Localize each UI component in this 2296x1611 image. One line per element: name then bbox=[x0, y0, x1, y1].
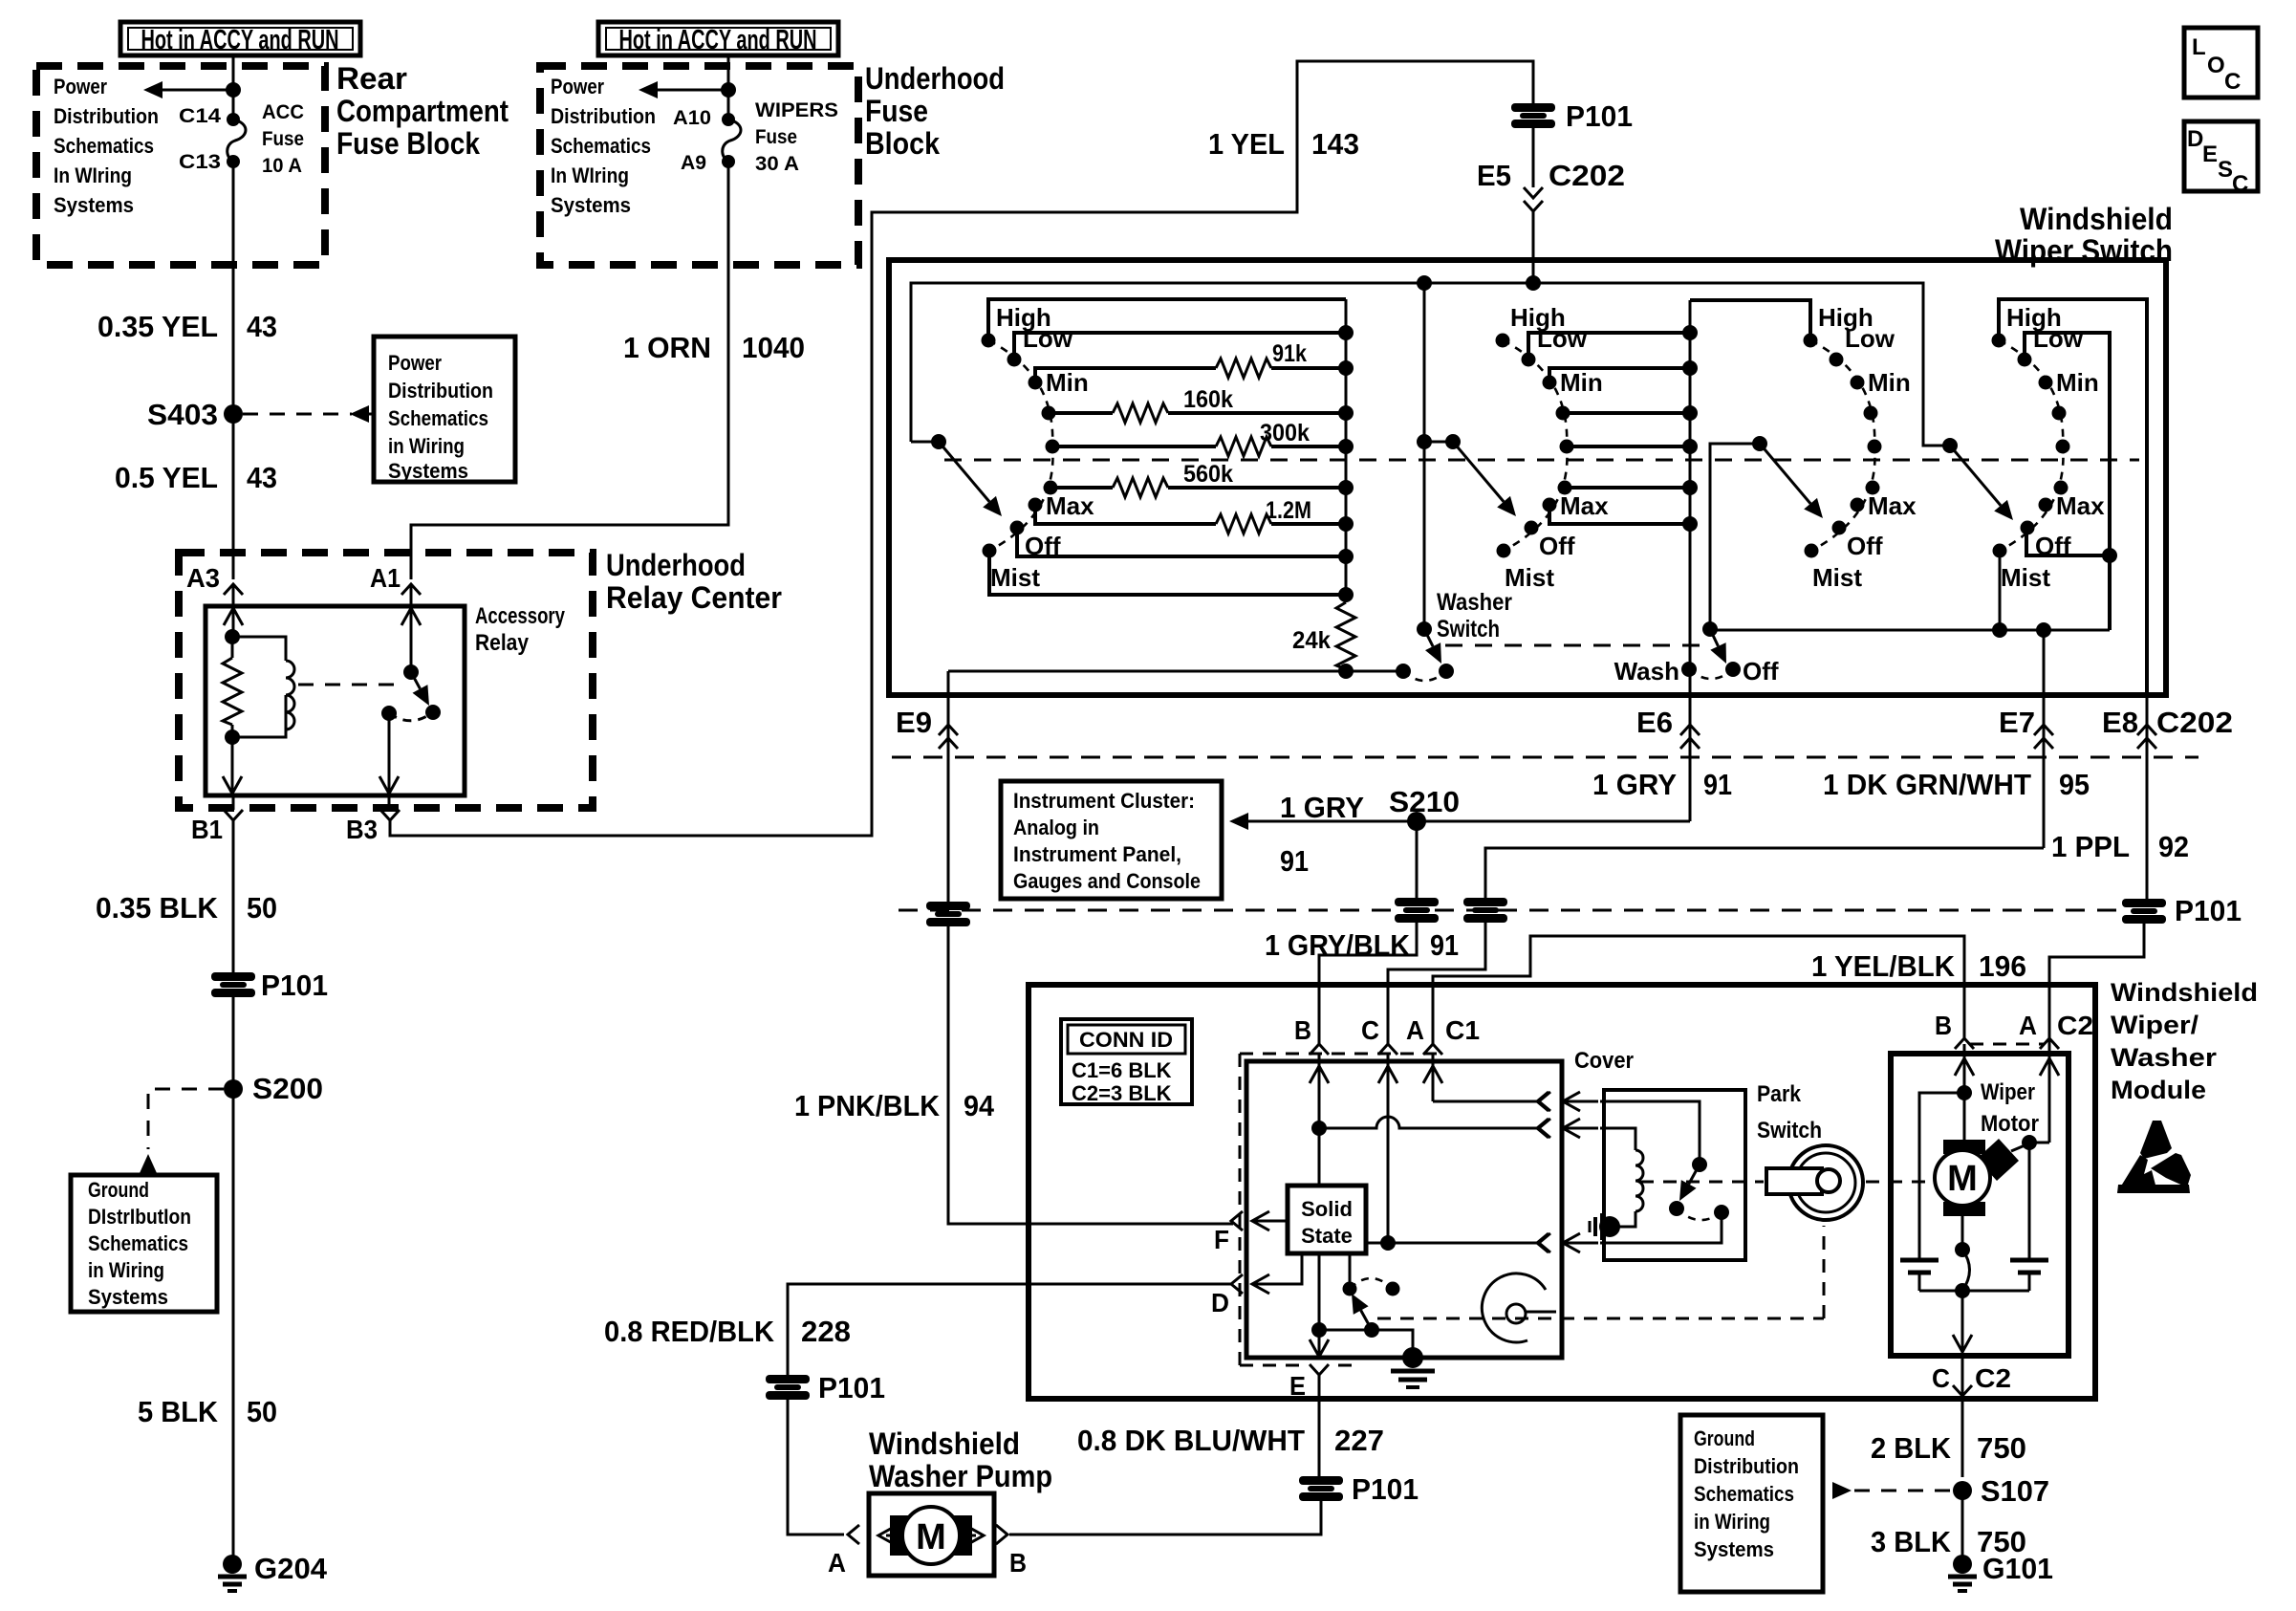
svg-text:0.35 YEL: 0.35 YEL bbox=[97, 310, 218, 343]
svg-text:Module: Module bbox=[2111, 1076, 2206, 1104]
svg-text:B: B bbox=[1009, 1548, 1027, 1578]
svg-text:Instrument Cluster:: Instrument Cluster: bbox=[1013, 789, 1195, 813]
svg-text:10 A: 10 A bbox=[262, 155, 302, 177]
svg-text:1 PPL: 1 PPL bbox=[2051, 830, 2130, 863]
svg-text:S200: S200 bbox=[252, 1072, 323, 1105]
svg-text:E9: E9 bbox=[896, 706, 932, 739]
suppression capacitor (left) bbox=[1900, 1260, 1939, 1291]
svg-text:Low: Low bbox=[2033, 324, 2084, 353]
svg-text:A: A bbox=[828, 1548, 846, 1578]
svg-text:1 ORN: 1 ORN bbox=[623, 331, 711, 364]
park switch arm bbox=[1669, 1157, 1729, 1220]
switch 1 output bus bbox=[1345, 299, 1348, 602]
wire: 1 ORN 1040 from fuse A9 down to relay A1 bbox=[411, 162, 728, 579]
wire: pin A C2 into motor to high brush bbox=[2022, 1038, 2059, 1150]
label: Windshield Washer Pump bbox=[869, 1426, 1052, 1493]
svg-text:S107: S107 bbox=[1981, 1474, 2049, 1508]
svg-text:C: C bbox=[2224, 69, 2241, 95]
svg-text:91: 91 bbox=[1280, 844, 1309, 878]
dashed gang line (washer switch) bbox=[1445, 644, 1708, 647]
label: Park Switch bbox=[1757, 1081, 1822, 1143]
connector P101 grommet on E5 feed bbox=[1511, 99, 1633, 133]
svg-text:Min: Min bbox=[1560, 368, 1603, 397]
wire: E9/P101 to module pin F (1 PNK/BLK 94) bbox=[948, 926, 1233, 1224]
box: park switch bbox=[1604, 1090, 1745, 1260]
relay actuation dashed link bbox=[298, 684, 405, 686]
wire: 24k bottom to washer switch / E9 bbox=[948, 664, 1403, 695]
leader: S403 to power distribution reference box bbox=[243, 405, 374, 423]
dashed box: Underhood Fuse Block power distribution bbox=[540, 66, 858, 265]
svg-text:Mist: Mist bbox=[1812, 563, 1862, 592]
washer pump cam inside cover bbox=[1482, 1274, 1556, 1342]
connector face dashed (cover left/bottom) bbox=[1240, 1054, 1357, 1365]
connector C2 pin C bbox=[1932, 1363, 2011, 1396]
switch 4 rung: Off bbox=[2026, 528, 2117, 563]
wire: relay common to B3 bbox=[379, 713, 399, 794]
svg-text:91: 91 bbox=[1430, 928, 1459, 962]
module pin F bbox=[1214, 1211, 1243, 1254]
wire: from Hot box down through fuse block bbox=[232, 55, 235, 120]
wire: P101 to S200 bbox=[232, 997, 235, 1089]
svg-text:5 BLK: 5 BLK bbox=[138, 1395, 219, 1428]
svg-text:Max: Max bbox=[1046, 491, 1094, 520]
switch 2 rung 6 bbox=[1565, 480, 1698, 495]
wire: power distribution arrow (second) bbox=[639, 81, 736, 98]
wire: E8 to module pin A C2 bbox=[2049, 923, 2144, 1038]
label: Underhood Fuse Block bbox=[865, 61, 1005, 161]
svg-text:Systems: Systems bbox=[551, 193, 631, 217]
box: Windshield Wiper Switch bbox=[889, 260, 2166, 695]
svg-text:228: 228 bbox=[801, 1315, 851, 1348]
park switch coil bbox=[1600, 1128, 1643, 1227]
svg-text:S210: S210 bbox=[1389, 785, 1460, 818]
svg-text:E5: E5 bbox=[1477, 159, 1511, 192]
relay coil branch wire A3 bbox=[224, 606, 243, 644]
svg-text:C13: C13 bbox=[179, 151, 221, 173]
switch 1 rung: Max with resistor 1.2M bbox=[1035, 505, 1354, 533]
node S403 splice bbox=[147, 398, 243, 431]
svg-text:0.5 YEL: 0.5 YEL bbox=[115, 461, 218, 494]
wire: P101 to C202 E5 bbox=[1532, 128, 1535, 187]
label: 0.35 BLK | 50 bbox=[96, 891, 277, 925]
svg-text:G204: G204 bbox=[254, 1552, 328, 1585]
rotary switch 4 contacts bbox=[1992, 303, 2106, 592]
svg-text:92: 92 bbox=[2158, 830, 2189, 863]
svg-text:D: D bbox=[1211, 1288, 1229, 1317]
svg-text:Washer: Washer bbox=[1437, 589, 1512, 616]
svg-text:Underhood: Underhood bbox=[865, 61, 1005, 96]
svg-text:Compartment: Compartment bbox=[336, 94, 509, 128]
label: 2 BLK | 750 bbox=[1871, 1431, 2026, 1465]
svg-text:Max: Max bbox=[1868, 491, 1917, 520]
wire: P101 to pump pin A bbox=[788, 1400, 844, 1535]
svg-text:M: M bbox=[916, 1517, 946, 1557]
svg-text:Mist: Mist bbox=[2001, 563, 2050, 592]
wire: A branch to right capacitor bbox=[2028, 1143, 2031, 1258]
svg-text:1 YEL: 1 YEL bbox=[1208, 127, 1285, 161]
washer switch feed bbox=[1417, 283, 1432, 629]
wash/off switch arm bbox=[1702, 444, 2000, 664]
svg-text:Wiper Switch: Wiper Switch bbox=[1995, 233, 2173, 268]
svg-text:Park: Park bbox=[1757, 1081, 1802, 1107]
svg-text:196: 196 bbox=[1979, 949, 2026, 983]
label: 1 GRY/BLK | 91 bbox=[1265, 928, 1459, 962]
svg-text:Relay: Relay bbox=[475, 630, 530, 656]
svg-text:State: State bbox=[1301, 1224, 1353, 1248]
wire: module pin D to washer pump A (0.8 RED/BLK 228) bbox=[788, 1284, 1233, 1375]
cover pin (to park contact) bbox=[1537, 1233, 1549, 1252]
svg-text:Systems: Systems bbox=[54, 193, 134, 217]
mechanical dashed link: motor shaft bbox=[1640, 1181, 1935, 1184]
wire: 0.5 YEL 43 from S403 to relay A3 bbox=[232, 422, 235, 579]
svg-text:0.35 BLK: 0.35 BLK bbox=[96, 891, 219, 925]
svg-text:50: 50 bbox=[247, 1395, 277, 1428]
wire + arrow: module pin F into solid state bbox=[1252, 1211, 1288, 1230]
svg-text:Schematics: Schematics bbox=[551, 134, 651, 158]
ESD static sensitive symbol bbox=[2117, 1121, 2191, 1193]
svg-text:Max: Max bbox=[2056, 491, 2105, 520]
switch 1 rung: Low bbox=[1014, 325, 1354, 359]
svg-text:B3: B3 bbox=[346, 815, 378, 844]
rotary switch 1 (delay resistor bank) contacts bbox=[982, 303, 1095, 592]
svg-text:Schematics: Schematics bbox=[388, 406, 488, 430]
svg-text:Washer Pump: Washer Pump bbox=[869, 1459, 1052, 1493]
switch 1 rung with resistor 560k bbox=[1051, 478, 1354, 497]
box: cover (module electronics) bbox=[1246, 1061, 1562, 1358]
wire: pump B to module pin E (0.8 DK BLU/WHT 227) bbox=[1009, 1501, 1321, 1535]
svg-text:43: 43 bbox=[247, 310, 277, 343]
mechanical dashed link: cams bbox=[1377, 1226, 1824, 1318]
svg-text:F: F bbox=[1214, 1225, 1229, 1254]
svg-text:Systems: Systems bbox=[1694, 1537, 1774, 1561]
label: 0.8 RED/BLK | 228 bbox=[604, 1315, 851, 1348]
svg-text:0.8 RED/BLK: 0.8 RED/BLK bbox=[604, 1315, 775, 1348]
svg-text:Low: Low bbox=[1845, 324, 1895, 353]
box: Hot in ACCY and RUN (underhood fuse block) bbox=[598, 22, 838, 55]
wire: B3 output to windshield wiper switch feed bbox=[390, 61, 1533, 836]
node S210 splice bbox=[1389, 785, 1460, 831]
pin B3 bbox=[346, 795, 400, 844]
wire: 1 YEL/BLK 196 jumper pin A C1 to pin B C2 bbox=[1433, 936, 1964, 1044]
box: Solid State bbox=[1288, 1186, 1366, 1253]
connector C2 dashed face bbox=[1970, 1043, 2044, 1046]
svg-text:D: D bbox=[2187, 126, 2203, 152]
label: 1 GRY / 91 (arrow) bbox=[1280, 791, 1364, 878]
node S200 splice bbox=[224, 1072, 323, 1105]
svg-text:E: E bbox=[1289, 1371, 1306, 1401]
wash/off switch contacts: Wash on E6 bus, Off stub bbox=[1681, 662, 1741, 679]
leader: ground distribution reference to S107 bbox=[1832, 1482, 1953, 1499]
switch 3 High rung to E6 bus bbox=[1690, 300, 1810, 340]
wiper motor M bbox=[1935, 1139, 2029, 1216]
wire: B branch to left capacitor bbox=[1919, 1093, 1964, 1258]
pin B1 bbox=[191, 795, 243, 844]
svg-text:E6: E6 bbox=[1636, 706, 1673, 739]
svg-text:Off: Off bbox=[1539, 532, 1575, 560]
label: 1 DK GRN/WHT | 95 (E7) bbox=[1823, 768, 2090, 801]
svg-text:P101: P101 bbox=[2175, 894, 2242, 927]
svg-text:Schematics: Schematics bbox=[88, 1231, 188, 1255]
connector C1 pin A bbox=[1406, 1015, 1442, 1055]
pin A1 bbox=[370, 563, 421, 606]
switch 1 wiper arm bbox=[931, 434, 1002, 516]
cover pin (to park coil) bbox=[1537, 1119, 1549, 1138]
label: 1 PPL | 92 (E8) bbox=[2051, 830, 2189, 863]
connector C202 pin E5 bbox=[1477, 159, 1625, 283]
svg-text:L: L bbox=[2192, 34, 2206, 60]
svg-text:Fuse: Fuse bbox=[865, 94, 928, 128]
park coil case ground bbox=[1590, 1213, 1620, 1240]
svg-text:Distribution: Distribution bbox=[1694, 1454, 1799, 1478]
fuse: WIPERS Fuse 30 A, pins A10/A9 bbox=[722, 113, 741, 168]
svg-text:Power: Power bbox=[54, 75, 107, 98]
connector C1 dashed face bbox=[1240, 1053, 1445, 1056]
switch 4 bottom bus to E7 bbox=[1992, 622, 2110, 695]
svg-text:227: 227 bbox=[1334, 1424, 1384, 1457]
svg-text:A3: A3 bbox=[186, 563, 220, 593]
svg-text:Solid: Solid bbox=[1301, 1197, 1353, 1221]
wire: S210 down to P101 bbox=[1416, 821, 1419, 899]
svg-text:O: O bbox=[2207, 53, 2225, 78]
label: Wiper Motor bbox=[1981, 1079, 2039, 1137]
svg-text:Motor: Motor bbox=[1981, 1111, 2039, 1137]
label: Power Distribution Schematics In Wiring Systems (second) bbox=[551, 75, 656, 217]
label: 0.5 YEL | 43 bbox=[115, 461, 277, 494]
box: wiper motor bbox=[1891, 1054, 2069, 1356]
switch 1 rung: Off bbox=[1017, 528, 1354, 564]
label: Windshield Wiper Switch bbox=[1995, 202, 2173, 268]
box: Windshield Wiper/Washer Module bbox=[1029, 985, 2095, 1399]
label: Underhood Relay Center bbox=[606, 548, 782, 615]
label: Windshield Wiper/Washer Module bbox=[2111, 978, 2258, 1104]
wire: pin C into cover down to solid state bbox=[1378, 1054, 1397, 1251]
box: Hot in ACCY and RUN (rear fuse block) bbox=[120, 22, 360, 55]
svg-text:DIstrIbutIon: DIstrIbutIon bbox=[88, 1205, 191, 1229]
svg-text:Switch: Switch bbox=[1757, 1118, 1822, 1143]
svg-text:E: E bbox=[2202, 142, 2218, 167]
svg-text:Distribution: Distribution bbox=[54, 104, 159, 128]
svg-text:24k: 24k bbox=[1292, 627, 1331, 654]
label: 1 YEL/BLK | 196 bbox=[1811, 949, 2026, 983]
switch 1 rung with resistor 300k bbox=[1052, 437, 1354, 456]
svg-text:ACC: ACC bbox=[262, 101, 304, 123]
svg-text:P101: P101 bbox=[1566, 99, 1633, 133]
wire: relay coil to B1 bbox=[223, 737, 242, 794]
ground G101 bbox=[1948, 1552, 2053, 1591]
svg-text:in Wiring: in Wiring bbox=[1694, 1510, 1770, 1534]
label: 1 GRY | 91 (E6) bbox=[1592, 768, 1732, 801]
wire: 5 BLK 50 from S200 to G204 bbox=[232, 1089, 235, 1556]
svg-text:CONN ID: CONN ID bbox=[1079, 1028, 1173, 1052]
svg-text:S403: S403 bbox=[147, 398, 218, 431]
svg-text:In WIring: In WIring bbox=[551, 163, 629, 187]
svg-text:Cover: Cover bbox=[1574, 1048, 1634, 1074]
svg-text:Wash: Wash bbox=[1614, 657, 1679, 686]
connector P101 grommet (pump return) bbox=[1299, 1472, 1419, 1506]
wire: cover to park pivot bbox=[1600, 1101, 1700, 1165]
svg-text:Rear: Rear bbox=[336, 61, 407, 96]
relay switch: A1 feed and movable arm bbox=[401, 606, 429, 706]
box: Power Distribution Schematics in Wiring Systems (reference) bbox=[374, 337, 515, 483]
switch 4 rung: High to E8 bbox=[1999, 299, 2147, 695]
svg-text:Power: Power bbox=[388, 351, 442, 375]
svg-text:143: 143 bbox=[1311, 127, 1359, 161]
wire: pin A into cover to park switch pivot bbox=[1423, 1054, 1550, 1111]
svg-text:C14: C14 bbox=[179, 105, 221, 127]
switch 2 rung: Min bbox=[1549, 360, 1698, 382]
svg-text:In WIring: In WIring bbox=[54, 163, 132, 187]
svg-text:P101: P101 bbox=[1352, 1472, 1419, 1506]
wire: 0.35 YEL 43 from fuse C13 to S403 bbox=[232, 162, 235, 406]
svg-text:1 GRY: 1 GRY bbox=[1592, 768, 1677, 801]
svg-text:Max: Max bbox=[1560, 491, 1609, 520]
svg-text:Low: Low bbox=[1537, 324, 1588, 353]
wire: E6 to S210 and instrument cluster arrow bbox=[1229, 813, 1690, 830]
svg-text:C: C bbox=[2232, 171, 2248, 197]
switch 2 rung 4 bbox=[1563, 405, 1698, 421]
svg-text:Analog in: Analog in bbox=[1013, 816, 1099, 839]
svg-text:Instrument Panel,: Instrument Panel, bbox=[1013, 842, 1181, 866]
svg-text:560k: 560k bbox=[1183, 461, 1233, 488]
svg-text:1 DK GRN/WHT: 1 DK GRN/WHT bbox=[1823, 768, 2031, 801]
svg-text:Mist: Mist bbox=[990, 563, 1040, 592]
cover pin (to park pivot) bbox=[1537, 1092, 1549, 1111]
switch 4 rung: Mist bbox=[1999, 547, 2002, 630]
connector C202 pin E8 bbox=[2102, 695, 2233, 900]
connector P101 grommet on E9 wire bbox=[926, 902, 970, 926]
switch 2 output bus (E6) bbox=[1689, 300, 1692, 695]
svg-text:G101: G101 bbox=[1982, 1552, 2053, 1585]
svg-text:Ground: Ground bbox=[88, 1178, 149, 1202]
svg-text:2 BLK: 2 BLK bbox=[1871, 1431, 1952, 1465]
svg-text:Underhood: Underhood bbox=[606, 548, 746, 582]
svg-text:Power: Power bbox=[551, 75, 604, 98]
svg-text:E7: E7 bbox=[1999, 706, 2035, 739]
relay switch contacts bbox=[381, 705, 441, 721]
rotary switch 2 contacts bbox=[1496, 303, 1610, 592]
connector C2 pin B bbox=[1935, 1011, 1974, 1049]
svg-text:in Wiring: in Wiring bbox=[388, 434, 465, 458]
wire: washer relay common to internal ground bbox=[1319, 1330, 1413, 1354]
connector C1 pin B bbox=[1294, 1015, 1329, 1055]
svg-text:Windshield: Windshield bbox=[2111, 978, 2258, 1007]
svg-text:160k: 160k bbox=[1183, 386, 1233, 413]
connector C202 pin E7 bbox=[1999, 695, 2053, 848]
connector P101 grommet on E8 wire bbox=[2122, 894, 2242, 927]
label: 0.8 DK BLU/WHT | 227 bbox=[1077, 1424, 1384, 1457]
module pin E bbox=[1289, 1364, 1329, 1476]
svg-text:750: 750 bbox=[1977, 1431, 2026, 1465]
svg-text:Hot in ACCY and RUN: Hot in ACCY and RUN bbox=[619, 25, 817, 55]
svg-text:B: B bbox=[1935, 1011, 1952, 1040]
label: 1 YEL | 143 bbox=[1208, 127, 1359, 161]
svg-text:1 GRY/BLK: 1 GRY/BLK bbox=[1265, 928, 1411, 962]
wire: solid state down to pin E bbox=[1310, 1253, 1329, 1357]
svg-text:A: A bbox=[1406, 1015, 1424, 1045]
svg-text:Windshield: Windshield bbox=[2020, 202, 2173, 236]
svg-text:B: B bbox=[1294, 1015, 1311, 1045]
switch 2 rung: Low bbox=[1528, 325, 1698, 359]
connector C202 pin E6 bbox=[1636, 695, 1700, 821]
connector P101 dashed line bbox=[899, 909, 2120, 912]
svg-text:A1: A1 bbox=[370, 563, 401, 593]
switch 4 wiper arm bbox=[1942, 438, 2013, 520]
svg-text:E8: E8 bbox=[2102, 706, 2138, 739]
switch 1 rung: Min with resistor 91k bbox=[1035, 359, 1354, 382]
svg-text:Windshield: Windshield bbox=[869, 1426, 1020, 1461]
svg-text:M: M bbox=[1947, 1159, 1978, 1199]
washer switch arm and contacts bbox=[1396, 621, 1454, 681]
wire: B1 to P101 bbox=[232, 820, 235, 972]
switch 4 rung: Low bbox=[2025, 333, 2110, 630]
svg-text:Systems: Systems bbox=[388, 459, 468, 483]
leader: S200 to ground distribution reference bbox=[140, 1089, 224, 1173]
svg-text:94: 94 bbox=[964, 1089, 995, 1122]
svg-text:Fuse: Fuse bbox=[262, 128, 304, 150]
svg-text:91: 91 bbox=[1703, 768, 1732, 801]
svg-text:S: S bbox=[2218, 157, 2233, 183]
svg-text:Fuse Block: Fuse Block bbox=[336, 126, 480, 161]
svg-text:Schematics: Schematics bbox=[1694, 1482, 1794, 1506]
switch 1 rung: Mist bbox=[989, 551, 1354, 602]
label: Power Distribution Schematics In Wiring Systems (left) bbox=[54, 75, 159, 217]
label: ACC Fuse 10 A bbox=[262, 101, 304, 177]
svg-text:Min: Min bbox=[2056, 368, 2099, 397]
connector C2 pin A bbox=[2019, 1011, 2059, 1049]
rotary switch 3 contacts bbox=[1804, 303, 1917, 592]
wire: power distribution arrow (left) bbox=[143, 81, 241, 98]
svg-text:1 YEL/BLK: 1 YEL/BLK bbox=[1811, 949, 1956, 983]
dashed gang line (wiper switch) bbox=[944, 459, 2139, 462]
module pin D bbox=[1211, 1274, 1243, 1317]
svg-text:Accessory: Accessory bbox=[475, 603, 566, 629]
wire: park contact to cover (solid state) bbox=[1600, 1212, 1722, 1243]
svg-text:C2=3 BLK: C2=3 BLK bbox=[1072, 1081, 1172, 1105]
fuse: ACC Fuse 10 A, pins C14/C13 bbox=[227, 113, 246, 168]
svg-text:Off: Off bbox=[1847, 532, 1883, 560]
connector C202 dashed line bbox=[892, 756, 2199, 759]
svg-text:Wiper: Wiper bbox=[1981, 1079, 2035, 1105]
box: LOC bbox=[2184, 28, 2258, 98]
label: 5 BLK | 50 bbox=[138, 1395, 277, 1428]
svg-text:C202: C202 bbox=[2156, 706, 2233, 739]
svg-text:Gauges and Console: Gauges and Console bbox=[1013, 869, 1201, 893]
svg-text:P101: P101 bbox=[818, 1371, 885, 1404]
switch 1 rung with resistor 160k bbox=[1049, 403, 1354, 423]
svg-text:A10: A10 bbox=[673, 107, 711, 129]
svg-text:Schematics: Schematics bbox=[54, 134, 154, 158]
relay coil resistor bbox=[231, 637, 234, 658]
svg-text:A9: A9 bbox=[681, 152, 706, 174]
svg-text:Switch: Switch bbox=[1437, 616, 1500, 642]
svg-text:Distribution: Distribution bbox=[388, 379, 493, 403]
svg-text:1 PNK/BLK: 1 PNK/BLK bbox=[794, 1089, 941, 1122]
svg-text:C: C bbox=[1361, 1015, 1379, 1045]
svg-text:Fuse: Fuse bbox=[755, 126, 797, 148]
svg-text:43: 43 bbox=[247, 461, 277, 494]
wire + arrow: module pin D into solid state bbox=[1252, 1253, 1302, 1294]
svg-text:Min: Min bbox=[1868, 368, 1911, 397]
svg-text:C2: C2 bbox=[1975, 1363, 2011, 1393]
switch 2 wiper arm bbox=[1424, 434, 1516, 516]
box: Ground Distribution Schematics in Wiring Systems (right ref) bbox=[1680, 1415, 1823, 1592]
box: CONN ID bbox=[1061, 1019, 1192, 1105]
svg-text:C1: C1 bbox=[1445, 1015, 1480, 1045]
label: 3 BLK | 750 bbox=[1871, 1525, 2026, 1558]
pump pin B bbox=[996, 1525, 1027, 1578]
suppression capacitor (right) bbox=[2010, 1260, 2048, 1291]
svg-text:Block: Block bbox=[865, 126, 940, 161]
